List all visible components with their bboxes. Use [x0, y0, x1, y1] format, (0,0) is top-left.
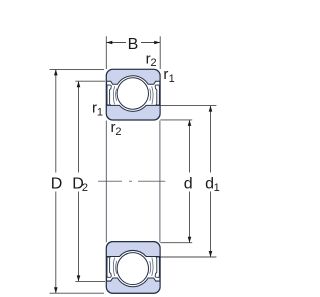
svg-text:1: 1 — [214, 182, 220, 194]
svg-text:2: 2 — [151, 57, 157, 69]
svg-text:B: B — [128, 36, 139, 53]
svg-text:2: 2 — [82, 182, 88, 194]
svg-text:1: 1 — [169, 73, 175, 85]
svg-text:2: 2 — [115, 126, 121, 138]
svg-text:d: d — [184, 175, 193, 192]
svg-text:1: 1 — [97, 106, 103, 118]
svg-text:D: D — [51, 175, 63, 192]
